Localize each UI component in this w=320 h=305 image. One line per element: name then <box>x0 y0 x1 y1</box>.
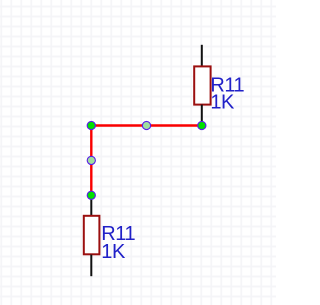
node: midpoint handle on vertical wire <box>87 156 95 164</box>
resistor R11 (top) <box>194 45 210 126</box>
label 1K (top resistor value) <box>210 92 235 114</box>
node: corner junction of horizontal and vertical wire <box>87 121 95 129</box>
svg-text:1K: 1K <box>210 92 235 114</box>
label R11 (top resistor reference) <box>210 74 244 96</box>
node: junction at bottom resistor lead and vertical wire <box>87 191 95 199</box>
node: midpoint handle on horizontal wire <box>142 121 150 129</box>
label 1K (bottom resistor value) <box>101 241 126 263</box>
label R11 (bottom resistor reference) <box>101 223 135 245</box>
resistor R11 (bottom) <box>84 195 100 276</box>
node: junction at top resistor lead and horizontal wire <box>198 121 206 129</box>
wire: horizontal segment from corner node to R11 top resistor <box>91 124 202 126</box>
svg-text:1K: 1K <box>101 241 126 263</box>
wire: vertical segment from corner node down to bottom resistor <box>90 126 92 196</box>
